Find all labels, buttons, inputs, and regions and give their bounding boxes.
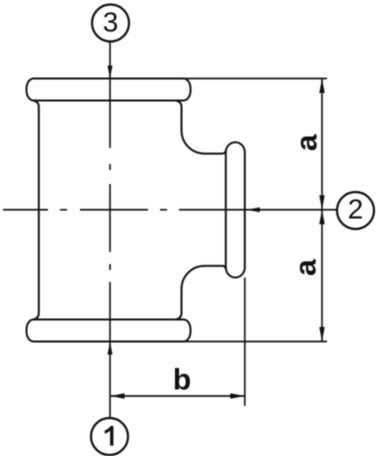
extension line from bead right edge [244,278,246,407]
arrowhead dim b right, pointing right [230,393,245,399]
port circle 2 [337,192,374,229]
digit 1 [105,426,114,446]
arrowhead dim a upper, pointing down to centerline [319,195,325,210]
arrowhead dim a bottom, pointing down [319,327,325,342]
leader arrowhead port 3, pointing down [108,66,113,79]
dimension line a-a (vertical) [321,79,323,342]
port circle 3 [92,5,129,42]
extension line bottom (port 1 plane) [183,341,327,343]
tee body left edge [33,101,39,320]
branch end bead [226,142,245,277]
leader arrowhead port 1, pointing up [108,342,113,355]
extension line top (port 3 plane) [183,78,327,80]
arrowhead dim b left, pointing left [110,393,125,399]
svg-text:b: b [173,364,191,397]
tee body right profile with branch fillets [176,101,226,320]
svg-text:a: a [290,259,323,276]
arrowhead dim a top, pointing up [319,79,325,94]
tee bottom band [27,320,191,342]
horizontal centerline [3,209,337,211]
leader arrowhead port 2, pointing left [247,207,260,212]
dimension line b (horizontal) [110,395,245,397]
vertical centerline [109,42,111,417]
svg-text:3: 3 [103,6,119,37]
tee top band [27,79,191,101]
svg-text:a: a [290,134,323,151]
port circle 1 [91,418,128,455]
arrowhead dim a lower, pointing up to centerline [319,210,325,225]
svg-text:2: 2 [348,194,364,225]
